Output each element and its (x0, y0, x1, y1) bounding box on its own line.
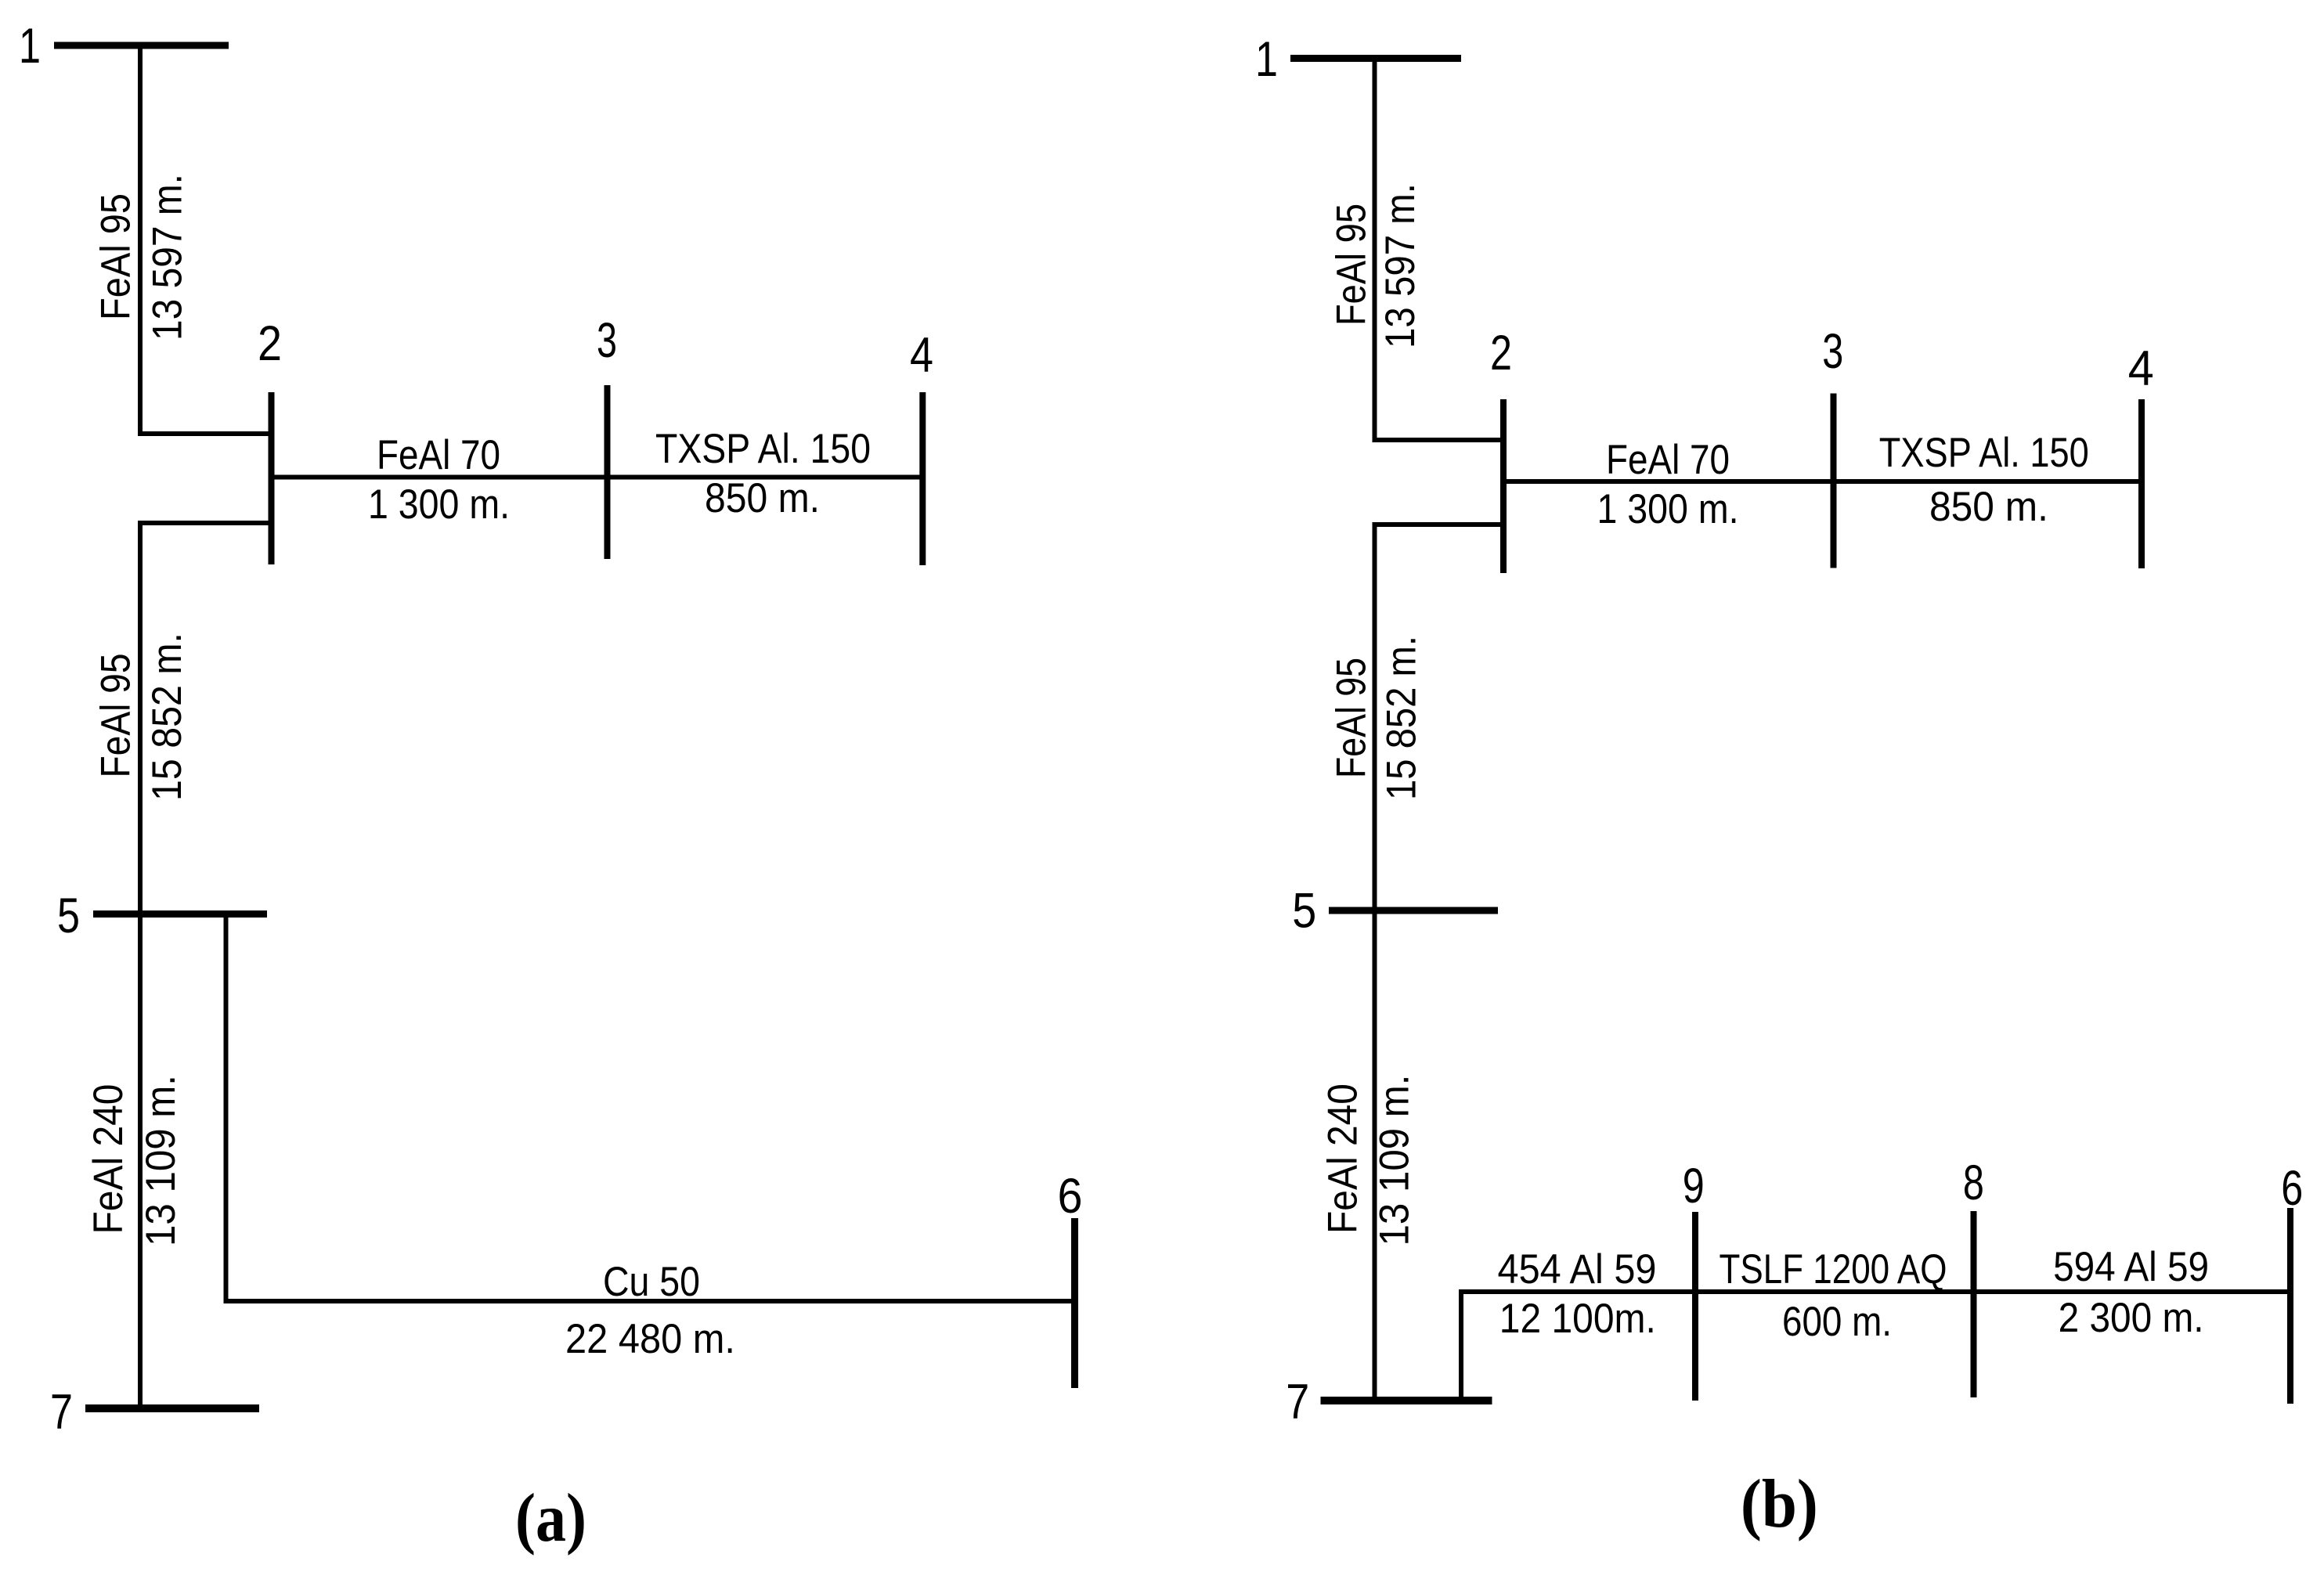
wire line 1-2 corner horizontal (a) (138, 431, 271, 436)
svg-text:3: 3 (597, 313, 617, 368)
wire line 1-2 vertical (a) (138, 45, 143, 434)
bus 9 bar (b) (1692, 1212, 1698, 1401)
bus 2 bar (b) (1500, 399, 1507, 573)
svg-text:15 852 m.: 15 852 m. (1379, 636, 1425, 800)
svg-text:850 m.: 850 m. (1929, 484, 2048, 530)
svg-text:13 109 m.: 13 109 m. (1372, 1075, 1418, 1246)
bus 5 bar (b) (1329, 907, 1498, 914)
svg-text:(a): (a) (515, 1480, 586, 1556)
svg-text:TXSP Al. 150: TXSP Al. 150 (1879, 430, 2089, 476)
svg-text:TXSP Al. 150: TXSP Al. 150 (655, 426, 871, 472)
wire line 5-6 horizontal (a) (224, 1299, 1075, 1303)
svg-text:15 852 m.: 15 852 m. (144, 633, 190, 801)
svg-text:12 100m.: 12 100m. (1499, 1296, 1656, 1342)
svg-text:13 597 m.: 13 597 m. (1377, 183, 1424, 348)
bus 6 bar (b) (2287, 1208, 2293, 1404)
bus 2 bar (a) (269, 392, 275, 564)
svg-text:1 300 m.: 1 300 m. (1597, 486, 1739, 532)
bus 3 bar (a) (604, 385, 611, 559)
wire line 2-3-4 (a) (271, 475, 923, 480)
bus 6 bar (a) (1071, 1218, 1078, 1388)
bus 1 bar (b) (1290, 55, 1461, 62)
svg-text:454 Al 59: 454 Al 59 (1498, 1246, 1657, 1293)
svg-text:6: 6 (1058, 1169, 1083, 1224)
svg-text:7: 7 (1286, 1375, 1309, 1430)
wire line 7-9-8-6 horizontal (b) (1459, 1289, 2290, 1294)
svg-text:13 109 m.: 13 109 m. (138, 1075, 184, 1246)
svg-text:1 300 m.: 1 300 m. (368, 481, 510, 528)
wire line 2-5 horizontal (a) (138, 521, 271, 525)
svg-text:2: 2 (1490, 326, 1512, 380)
bus 8 bar (b) (1971, 1211, 1977, 1397)
svg-text:FeAl 95: FeAl 95 (93, 654, 139, 778)
svg-text:600 m.: 600 m. (1782, 1299, 1892, 1345)
wire line 1-2 vertical (b) (1373, 58, 1377, 440)
bus 4 bar (b) (2138, 399, 2145, 568)
svg-text:6: 6 (2281, 1161, 2303, 1216)
svg-text:FeAl 240: FeAl 240 (85, 1084, 132, 1235)
svg-text:13 597 m.: 13 597 m. (145, 174, 191, 341)
svg-text:850 m.: 850 m. (705, 475, 820, 521)
wire line 5-7 vertical (a) (138, 521, 143, 1408)
bus 7 bar (a) (85, 1404, 259, 1412)
bus 7 bar (b) (1321, 1397, 1492, 1404)
svg-text:22 480 m.: 22 480 m. (565, 1316, 735, 1362)
svg-text:5: 5 (57, 889, 80, 943)
svg-text:2: 2 (258, 316, 282, 371)
svg-text:5: 5 (1292, 884, 1316, 939)
svg-text:Cu 50: Cu 50 (603, 1259, 700, 1305)
bus 5 bar (a) (93, 910, 267, 918)
bus 4 bar (a) (919, 392, 926, 565)
wire line 7-9 vertical (b) (1459, 1289, 1463, 1401)
svg-text:8: 8 (1963, 1156, 1984, 1210)
svg-text:FeAl 95: FeAl 95 (93, 193, 139, 320)
wire line 1-2 corner horizontal (b) (1373, 438, 1507, 442)
svg-text:FeAl 95: FeAl 95 (1329, 658, 1375, 778)
svg-text:FeAl 95: FeAl 95 (1329, 204, 1375, 326)
wire line 5-6 vertical (a) (224, 914, 229, 1301)
svg-text:FeAl 240: FeAl 240 (1319, 1083, 1366, 1234)
wire line 5-7 vertical (b) (1373, 522, 1377, 1401)
svg-text:4: 4 (2128, 341, 2154, 396)
svg-text:7: 7 (50, 1385, 73, 1440)
wire line 2-3-4 (b) (1503, 479, 2142, 484)
svg-text:4: 4 (910, 328, 933, 383)
svg-text:3: 3 (1822, 324, 1843, 379)
svg-text:9: 9 (1683, 1159, 1705, 1213)
wire line 2-5 horizontal (b) (1373, 522, 1504, 527)
svg-text:1: 1 (19, 19, 41, 74)
svg-text:TSLF 1200 AQ: TSLF 1200 AQ (1720, 1246, 1947, 1293)
svg-text:2 300 m.: 2 300 m. (2059, 1295, 2204, 1341)
bus 1 bar (a) (54, 42, 229, 49)
svg-text:(b): (b) (1741, 1466, 1818, 1542)
svg-text:594 Al 59: 594 Al 59 (2053, 1244, 2209, 1290)
svg-text:1: 1 (1255, 32, 1278, 87)
svg-text:FeAl 70: FeAl 70 (1606, 437, 1730, 483)
svg-text:FeAl 70: FeAl 70 (377, 432, 500, 478)
bus 3 bar (b) (1831, 394, 1837, 568)
